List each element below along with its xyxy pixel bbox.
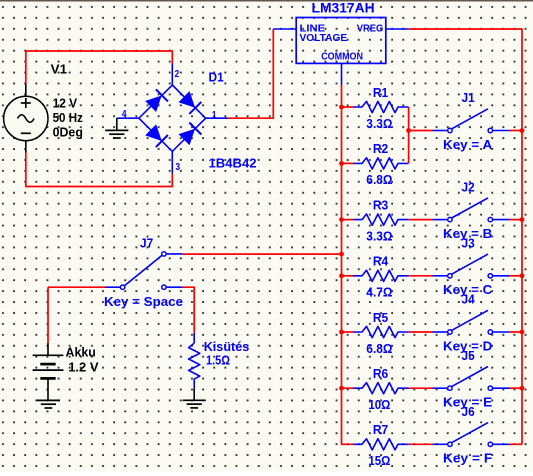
svg-text:50 Hz: 50 Hz <box>53 110 84 125</box>
svg-text:R7: R7 <box>373 422 388 437</box>
svg-text:3: 3 <box>176 162 181 173</box>
svg-text:R4: R4 <box>373 254 389 269</box>
svg-text:J3: J3 <box>462 236 475 251</box>
svg-text:VREG: VREG <box>357 24 384 35</box>
svg-text:J6: J6 <box>462 404 475 419</box>
svg-text:12 V: 12 V <box>53 95 78 110</box>
svg-text:V1: V1 <box>51 61 67 76</box>
svg-text:Key = A: Key = A <box>443 137 493 152</box>
svg-text:R2: R2 <box>373 141 388 156</box>
svg-text:4.7Ω: 4.7Ω <box>366 285 392 300</box>
svg-text:J1: J1 <box>462 90 475 105</box>
svg-text:R3: R3 <box>373 197 388 212</box>
svg-text:D1: D1 <box>209 69 224 84</box>
svg-text:LM317AH: LM317AH <box>312 0 375 16</box>
svg-text:4: 4 <box>122 109 127 120</box>
svg-text:2: 2 <box>175 69 180 80</box>
svg-text:1: 1 <box>212 110 217 121</box>
svg-text:1.2 V: 1.2 V <box>68 359 99 374</box>
svg-text:R5: R5 <box>373 310 388 325</box>
svg-text:3.3Ω: 3.3Ω <box>366 228 392 243</box>
svg-text:J2: J2 <box>462 179 475 194</box>
svg-text:3.3Ω: 3.3Ω <box>366 116 392 131</box>
svg-text:0Deg: 0Deg <box>53 124 83 139</box>
svg-text:15Ω: 15Ω <box>368 453 390 468</box>
svg-text:J7: J7 <box>140 236 153 251</box>
svg-text:J5: J5 <box>462 348 475 363</box>
svg-text:1.5Ω: 1.5Ω <box>206 353 230 368</box>
svg-text:1B4B42: 1B4B42 <box>209 155 257 170</box>
svg-text:6.8Ω: 6.8Ω <box>366 341 392 356</box>
svg-text:R6: R6 <box>373 366 388 381</box>
svg-text:Key = Space: Key = Space <box>104 294 183 309</box>
svg-text:J4: J4 <box>462 292 476 307</box>
svg-text:VOLTAGE: VOLTAGE <box>300 33 348 44</box>
svg-text:6.8Ω: 6.8Ω <box>366 172 392 187</box>
svg-text:Akku: Akku <box>66 344 96 359</box>
svg-text:10Ω: 10Ω <box>368 397 390 412</box>
svg-text:Key = F: Key = F <box>443 451 492 466</box>
svg-text:COMMON: COMMON <box>321 52 363 63</box>
svg-text:R1: R1 <box>373 85 388 100</box>
